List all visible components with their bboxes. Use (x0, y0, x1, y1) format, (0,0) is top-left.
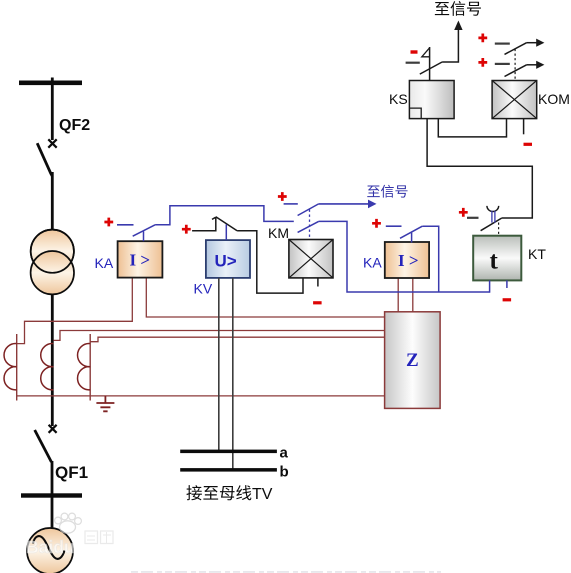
lead KT coil right (506, 280, 508, 288)
svg-text:KT: KT (528, 246, 546, 262)
minus KOM (524, 143, 533, 146)
svg-text:Z: Z (406, 350, 419, 371)
lead KM coil right (317, 278, 319, 287)
svg-text:KA: KA (363, 255, 382, 271)
svg-text:KV: KV (194, 281, 213, 297)
contact KOM upper blade (505, 43, 527, 55)
linkage KOM dashed (514, 49, 516, 81)
label to-signal top (435, 2, 449, 15)
breaker QF2 x-mark (48, 139, 56, 147)
relay KV undervoltage U> box (206, 240, 250, 278)
wire busbar to QF2 (51, 78, 54, 141)
breaker QF1 x-mark (49, 425, 57, 433)
wire CT3 to Z filter (90, 337, 384, 342)
relay KM intermediate box (289, 240, 333, 278)
contact KS flag (422, 48, 430, 57)
svg-text:QF1: QF1 (55, 463, 88, 482)
svg-text:KOM: KOM (538, 91, 570, 107)
bar a (180, 450, 277, 454)
contact KOM upper dash (495, 42, 510, 44)
svg-text:Baidu: Baidu (26, 537, 75, 557)
contact KM upper blade (298, 204, 319, 216)
wire QF2 to transformer (51, 172, 54, 231)
svg-text:KA: KA (95, 255, 114, 271)
wire KA2 contact down (422, 226, 438, 292)
wire to signal arrow (319, 203, 369, 205)
generator G circle (27, 528, 73, 573)
contact KT blade (481, 218, 502, 231)
label to-signal middle (blue) (367, 186, 380, 198)
breaker QF1 blade (35, 430, 52, 462)
wire QF1 to bar (51, 461, 54, 494)
contact KT delay cup (487, 206, 499, 212)
transformer winding1 outline over (31, 230, 74, 273)
filter Z box (385, 312, 441, 409)
CT TA1 lead line (16, 334, 18, 401)
contact KV blade (216, 217, 237, 231)
wire KA1 contact to KM lower contact (155, 206, 294, 225)
CT TA1 arcs (4, 344, 17, 390)
plus KOM upper contact (478, 34, 487, 43)
svg-text:I >: I > (130, 251, 151, 270)
lead U> box top (225, 224, 227, 240)
minus KM (313, 301, 322, 304)
wire TV phase b (232, 278, 234, 469)
minus KT (503, 298, 512, 301)
relay KT time box (473, 236, 521, 281)
lead KOM minus (523, 119, 525, 135)
contact KS flag pole (429, 47, 431, 81)
wire CT1 to KA1 coil (17, 278, 133, 344)
relay KA2 overcurrent I> box (385, 242, 429, 278)
contact KA1 dash terminal (117, 224, 134, 226)
svg-text:a: a (280, 445, 289, 462)
wire KA1 coil to Z filter (146, 278, 384, 317)
CT TA3 lead line (89, 334, 91, 401)
contact KOM lower blade (505, 65, 527, 77)
wire KT contact to KS coil (427, 119, 532, 218)
wire KS contact to signal arrow up (442, 29, 458, 62)
label connect-to-bus-TV (186, 485, 201, 500)
lead KT coil left (489, 280, 491, 292)
plus KV contact (182, 225, 191, 234)
wire KM lower contact to KT coil (319, 221, 490, 292)
svg-text:b: b (280, 464, 289, 481)
contact KV fixed terminal (192, 217, 216, 231)
watermark baidu (26, 513, 113, 557)
busbar bottom (21, 493, 82, 497)
contact KS blade (420, 62, 442, 74)
relay KS signal box (409, 81, 454, 119)
wire transformer to QF1 (51, 294, 54, 426)
minus KS contact (411, 50, 418, 53)
wire KV contact to KM coil (237, 231, 303, 293)
plus KM upper contact (278, 192, 287, 201)
caption remnant bottom (131, 571, 441, 573)
plus KOM lower contact (478, 58, 487, 67)
contact KM upper dash terminal (284, 203, 298, 205)
bar b (180, 468, 277, 472)
svg-text:TV: TV (252, 486, 273, 503)
svg-text:I >: I > (398, 251, 419, 270)
contact KM lower blade (298, 221, 319, 232)
transformer T winding 2 (31, 251, 74, 294)
busbar top (19, 81, 82, 86)
contact KA2 dash terminal (386, 225, 402, 227)
contact KT dash terminal (467, 217, 479, 219)
CT TA2 arcs (41, 344, 54, 390)
trip arrow lower (527, 64, 537, 66)
contact KA1 blade (133, 225, 155, 236)
CT TA3 arcs (78, 344, 91, 390)
ground (96, 396, 114, 411)
plus KA1 (104, 218, 113, 227)
breaker QF2 blade (37, 143, 52, 176)
linkage KT dashed (498, 223, 500, 236)
svg-text:QF2: QF2 (59, 117, 90, 134)
generator sine wave (33, 536, 65, 559)
transformer T winding 1 (31, 230, 74, 273)
wire TV phase a (218, 278, 220, 450)
contact KOM lower dash (495, 63, 510, 65)
contact KT plunger (blue) (492, 211, 495, 223)
wire KA2 coil to Z leads (398, 278, 413, 312)
relay KOM output box (492, 81, 537, 119)
lead KA1 box top (143, 231, 145, 241)
wire KS-KOM series (438, 119, 506, 137)
trip arrow upper (527, 42, 537, 44)
wire bar to generator (51, 498, 54, 530)
linkage KM dashed (309, 210, 311, 240)
svg-text:U>: U> (215, 252, 237, 271)
plus KA2 contact (372, 219, 381, 228)
lead KA2 box top (411, 233, 413, 243)
svg-text:t: t (490, 248, 499, 275)
wire CT common return (17, 395, 385, 397)
relay KA1 overcurrent I> box (118, 241, 163, 277)
wire CT2 to Z filter (53, 331, 384, 341)
svg-text:KM: KM (268, 225, 289, 241)
svg-text:KS: KS (389, 91, 408, 107)
plus KT contact (459, 208, 468, 217)
contact KA2 blade (400, 226, 422, 238)
contact KS dash terminal (406, 62, 420, 64)
